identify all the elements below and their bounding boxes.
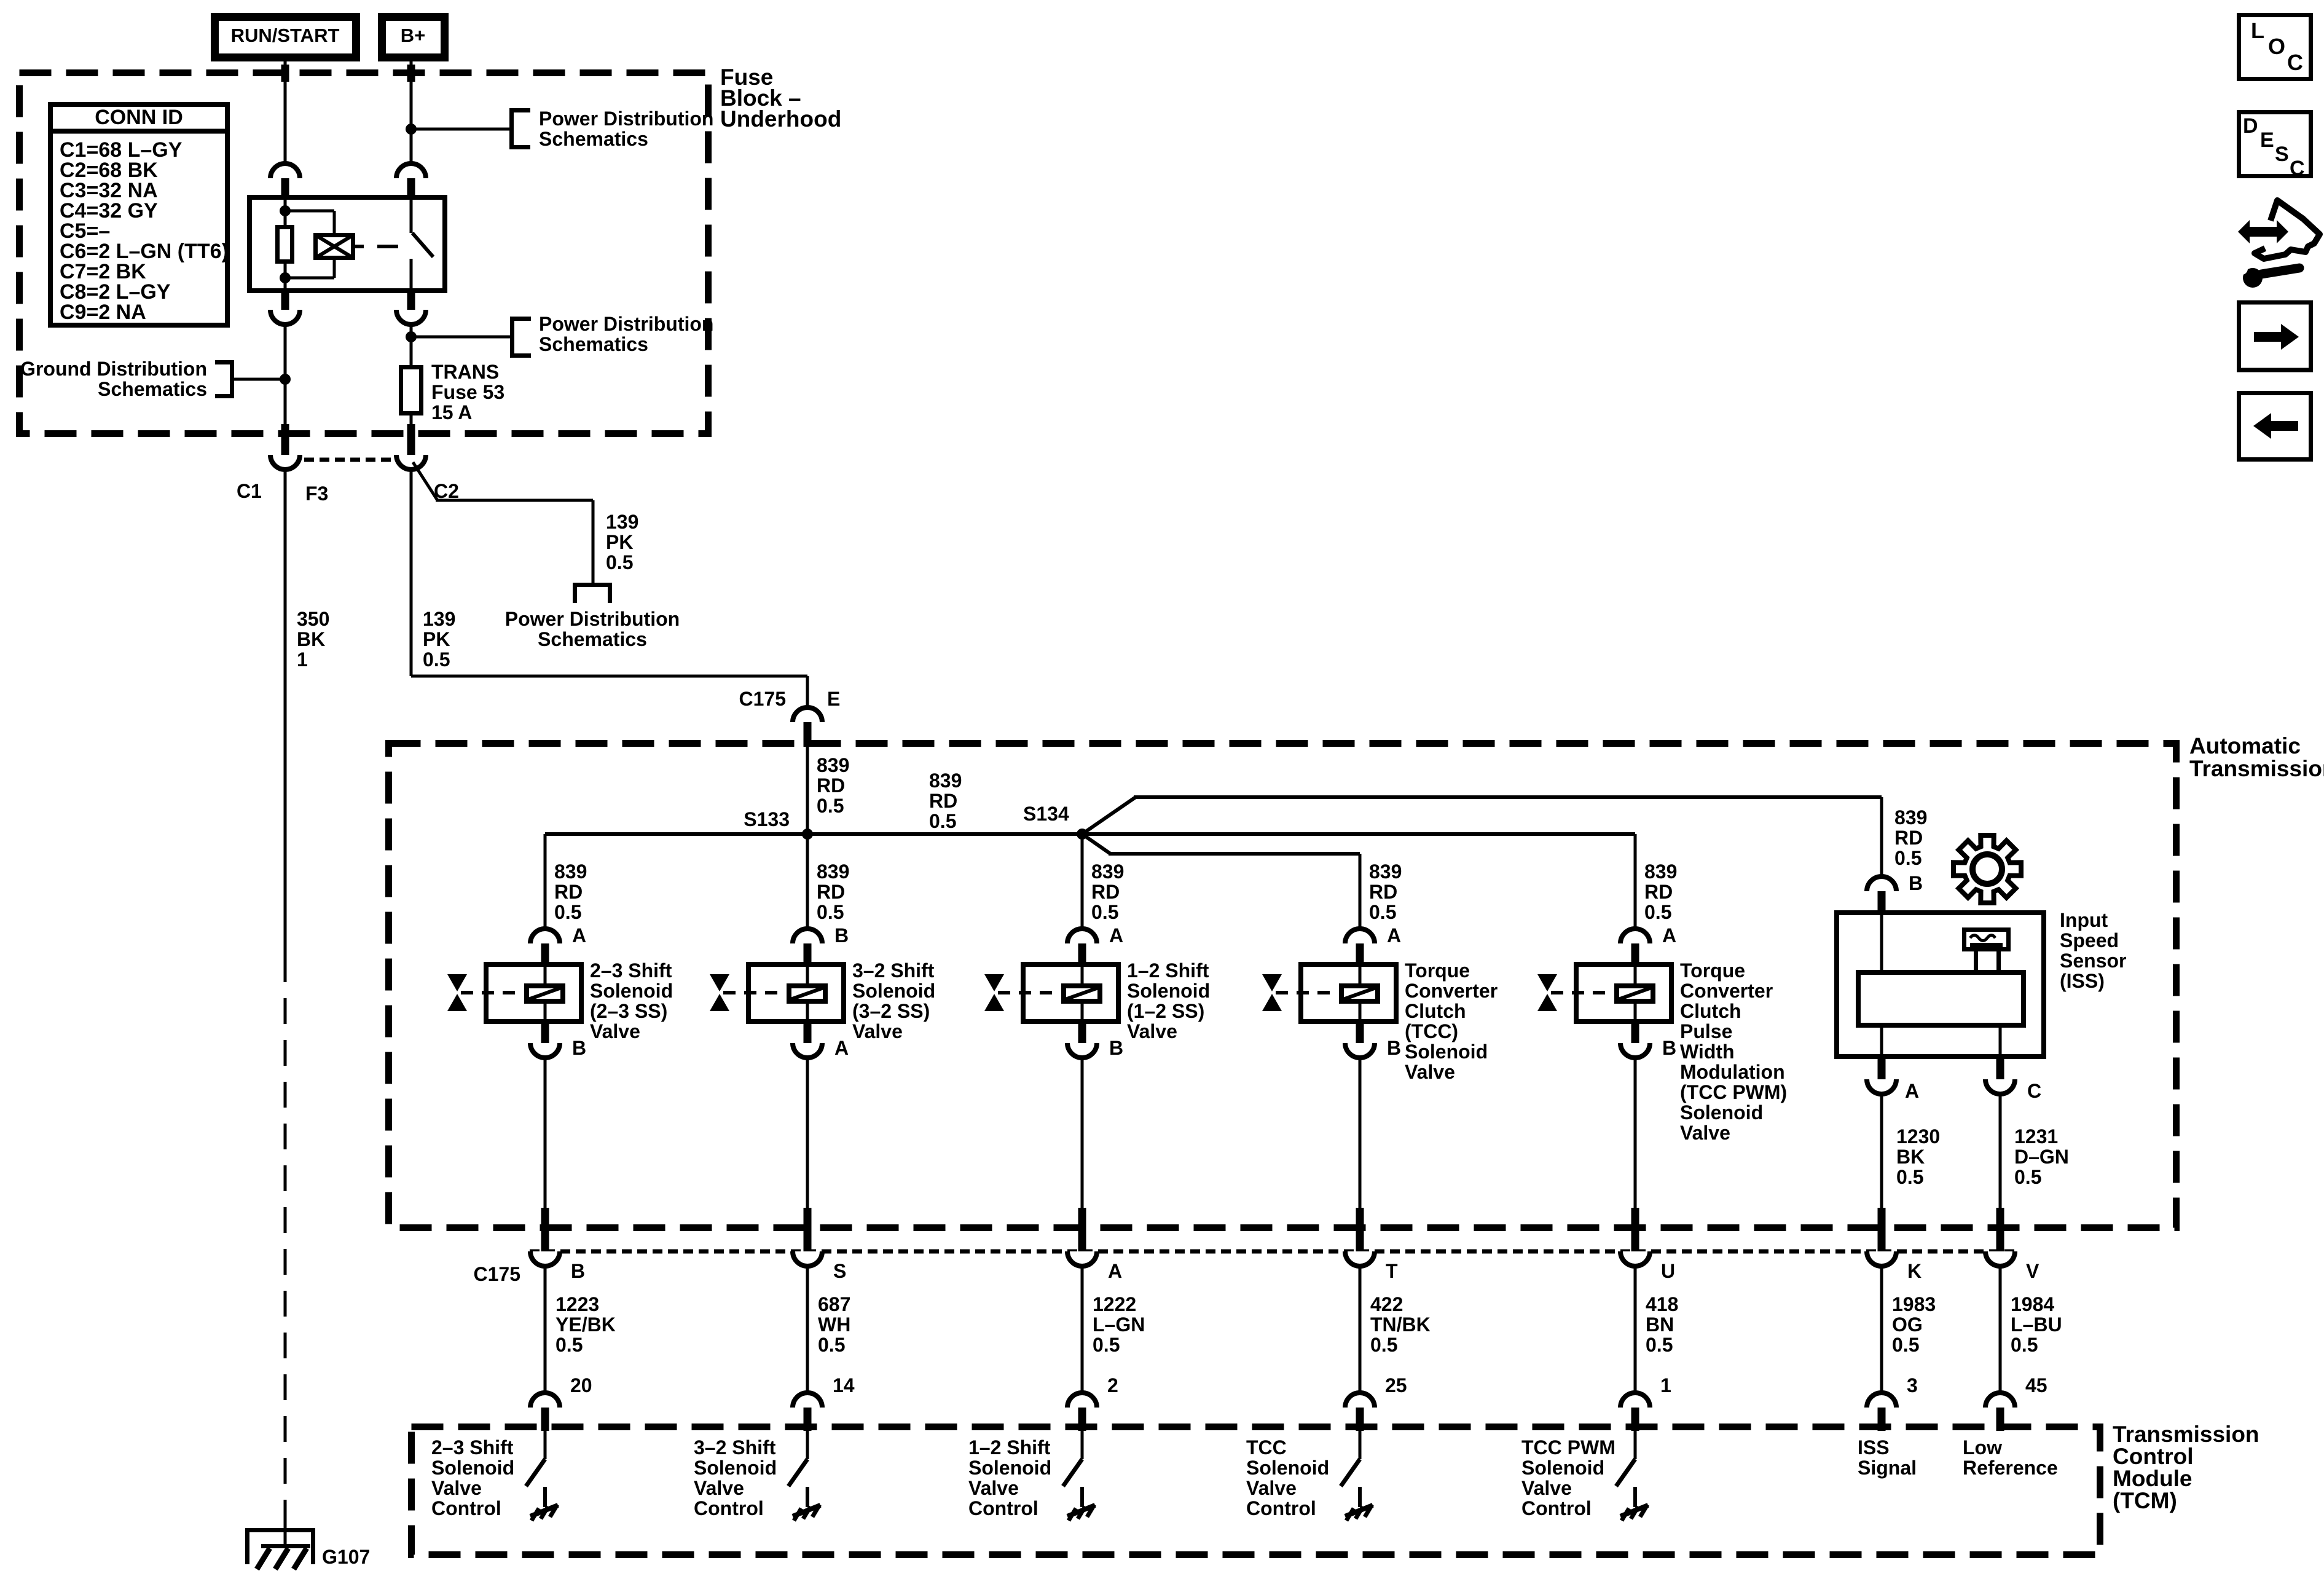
svg-text:B: B (1109, 1037, 1123, 1059)
svg-text:0.5: 0.5 (1370, 1334, 1397, 1356)
svg-text:Valve: Valve (1246, 1477, 1297, 1499)
svg-text:1984: 1984 (2011, 1293, 2054, 1315)
wire 839 RD E to S133 (806, 746, 809, 834)
svg-text:TRANS: TRANS (431, 361, 499, 383)
svg-text:1983: 1983 (1892, 1293, 1936, 1315)
svg-text:Underhood: Underhood (720, 106, 841, 132)
coil TCC PWM solenoid (1617, 986, 1653, 1001)
svg-text:Transmission: Transmission (2113, 1422, 2259, 1447)
svg-text:Control: Control (1521, 1497, 1592, 1519)
wire low reference to TCM (1999, 1265, 2002, 1394)
connector arc C1 (270, 455, 300, 470)
switch TCM driver at x=2661 (1634, 1431, 1637, 1459)
node S133 (802, 829, 813, 840)
connector C175 pin U (TCC PWM) (1631, 1208, 1639, 1253)
switch TCM driver at x=887 (544, 1431, 547, 1459)
svg-text:350: 350 (297, 608, 329, 630)
svg-text:1–2 Shift: 1–2 Shift (968, 1436, 1051, 1459)
wire coil feed TCC PWM solenoid (1634, 964, 1637, 986)
svg-text:839: 839 (554, 860, 587, 883)
svg-text:0.5: 0.5 (817, 795, 844, 817)
svg-text:ISS: ISS (1858, 1436, 1890, 1459)
solenoid TCC PWM solenoid box (1576, 964, 1671, 1022)
svg-text:2–3 Shift: 2–3 Shift (590, 959, 672, 982)
connector arc relay pin RUN/START (270, 163, 300, 178)
node ground distribution tap (280, 374, 291, 385)
icon box arrow left (2239, 393, 2311, 460)
svg-text:C: C (2290, 157, 2305, 180)
svg-text:139: 139 (423, 608, 455, 630)
svg-text:WH: WH (818, 1313, 850, 1336)
svg-text:Solenoid: Solenoid (852, 980, 935, 1002)
power feed box B+ (382, 17, 445, 58)
node relay coil top (280, 205, 291, 216)
svg-text:Fuse 53: Fuse 53 (431, 381, 504, 403)
connector arc pin B 1-2 shift solenoid (1078, 1023, 1086, 1043)
wire 139 PK to power distribution (436, 499, 593, 502)
svg-text:K: K (1907, 1260, 1922, 1282)
svg-text:0.5: 0.5 (1892, 1334, 1919, 1356)
wire 1-2 shift to TCM (1081, 1265, 1084, 1394)
valve symbol 3-2 shift solenoid (710, 974, 729, 991)
svg-text:45: 45 (2025, 1374, 2047, 1396)
valve symbol 1-2 shift solenoid (984, 974, 1004, 991)
connector arc pin B 2-3 shift solenoid (541, 1023, 549, 1043)
connector arc TCM pin 25 (1345, 1393, 1375, 1408)
svg-text:0.5: 0.5 (817, 901, 844, 923)
wire C2 lead diagonal (413, 462, 438, 500)
ISS pickup neck (1974, 951, 1978, 972)
wire 1-2 shift solenoid to C175 (1081, 1057, 1084, 1209)
switch TCM driver at x=1314 (806, 1431, 809, 1459)
valve symbol TCC solenoid (1262, 974, 1282, 991)
svg-text:839: 839 (1369, 860, 1402, 883)
bus 839 RD S133 to TCC PWM drop (545, 832, 1635, 836)
svg-text:1231: 1231 (2014, 1125, 2058, 1148)
wire TCC PWM solenoid to C175 (1634, 1057, 1637, 1209)
svg-text:TN/BK: TN/BK (1370, 1313, 1431, 1336)
svg-text:RD: RD (817, 774, 845, 797)
svg-text:839: 839 (1894, 806, 1927, 829)
input speed sensor ISS box (1837, 913, 2044, 1057)
connector arc C2 (396, 455, 426, 470)
svg-text:839: 839 (1644, 860, 1677, 883)
svg-text:Solenoid: Solenoid (968, 1457, 1051, 1479)
wire 139 PK main (410, 468, 413, 676)
svg-text:839: 839 (1091, 860, 1124, 883)
svg-text:Solenoid: Solenoid (694, 1457, 777, 1479)
automatic transmission dashed box (389, 744, 2177, 1228)
callout bracket ground distribution (230, 360, 234, 398)
wire TCC to TCM (1359, 1265, 1362, 1394)
svg-text:Solenoid: Solenoid (1246, 1457, 1329, 1479)
relay coil branch wires (284, 195, 287, 293)
svg-text:E: E (827, 688, 840, 710)
wire tap to ground distribution callout (234, 378, 285, 381)
svg-text:L–GN: L–GN (1093, 1313, 1145, 1336)
wire RUN/START to relay (284, 61, 287, 163)
svg-text:Valve: Valve (968, 1477, 1019, 1499)
svg-text:C: C (2027, 1080, 2041, 1102)
connector arc pin C ISS (1996, 1059, 2004, 1081)
svg-text:C9=2 NA: C9=2 NA (60, 301, 146, 324)
wire coil to switch dashed link (355, 245, 364, 248)
svg-text:Control: Control (968, 1497, 1038, 1519)
svg-text:Low: Low (1963, 1436, 2002, 1459)
svg-text:Schematics: Schematics (98, 378, 207, 400)
svg-text:0.5: 0.5 (1894, 847, 1922, 869)
wire S134 branch up to ISS (1082, 797, 1136, 834)
svg-text:0.5: 0.5 (423, 648, 450, 671)
svg-text:Width: Width (1680, 1041, 1735, 1063)
svg-text:Control: Control (431, 1497, 501, 1519)
svg-text:(3–2 SS): (3–2 SS) (852, 1000, 930, 1022)
svg-text:839: 839 (929, 770, 962, 792)
wire ISS B internal (1880, 913, 1883, 972)
svg-text:A: A (1905, 1080, 1919, 1102)
svg-text:0.5: 0.5 (1369, 901, 1396, 923)
svg-text:1230: 1230 (1896, 1125, 1940, 1148)
callout bracket power distribution 2 (510, 317, 514, 358)
svg-text:Torque: Torque (1680, 959, 1745, 982)
ISS pickup element box (1965, 930, 2009, 950)
node B+ tap (406, 124, 417, 135)
svg-text:Valve: Valve (590, 1020, 640, 1042)
wire TCC solenoid to C175 (1359, 1057, 1362, 1209)
solenoid 1-2 shift solenoid box (1023, 964, 1118, 1022)
connector arc pin A ISS (1878, 1059, 1886, 1081)
svg-text:OG: OG (1892, 1313, 1923, 1336)
svg-text:B: B (1909, 872, 1923, 894)
svg-text:RD: RD (1369, 881, 1397, 903)
valve symbol TCC PWM solenoid (1537, 974, 1557, 991)
svg-text:S: S (833, 1260, 846, 1282)
gear icon input speed sensor (1953, 835, 2021, 903)
ground TCM at x=2213 (1358, 1487, 1362, 1507)
node fuse tap (406, 331, 417, 342)
node S134 (1077, 829, 1088, 840)
svg-text:(2–3 SS): (2–3 SS) (590, 1000, 667, 1022)
callout bracket power distribution 3 (573, 583, 612, 587)
svg-text:Power Distribution: Power Distribution (505, 608, 680, 630)
wire ISS A to C175 (1880, 1093, 1883, 1209)
connector arc pin B TCC solenoid (1356, 1023, 1364, 1043)
connector arc relay out RUN/START side (281, 293, 289, 310)
switch TCM driver at x=1761 (1081, 1431, 1084, 1459)
svg-text:T: T (1386, 1260, 1398, 1282)
svg-text:PK: PK (423, 628, 450, 650)
svg-text:Valve: Valve (694, 1477, 744, 1499)
svg-text:A: A (572, 924, 586, 947)
svg-text:RD: RD (929, 790, 957, 812)
svg-text:C175: C175 (474, 1263, 521, 1285)
svg-text:0.5: 0.5 (1646, 1334, 1673, 1356)
svg-text:CONN ID: CONN ID (95, 106, 183, 129)
svg-text:Pulse: Pulse (1680, 1020, 1732, 1042)
CONN ID table (50, 104, 227, 325)
wire stub C1 (281, 424, 289, 457)
coil 1-2 shift solenoid (1064, 986, 1100, 1001)
svg-text:L: L (2251, 18, 2264, 43)
svg-text:Control: Control (2113, 1444, 2194, 1469)
icon box LOC (2239, 15, 2311, 79)
svg-text:3–2 Shift: 3–2 Shift (852, 959, 935, 982)
svg-text:B: B (1387, 1037, 1401, 1059)
svg-text:2: 2 (1107, 1374, 1118, 1396)
wire coil feed 2-3 shift solenoid (544, 964, 547, 986)
icon box arrow right (2239, 302, 2311, 370)
wire drop 3-2 shift (806, 834, 809, 930)
svg-text:0.5: 0.5 (2014, 1166, 2041, 1188)
coil 3-2 shift solenoid (789, 986, 825, 1001)
wire tap to power distribution callout 2 (411, 336, 510, 339)
connector C175 pin S (3-2 shift) (804, 1208, 812, 1253)
svg-text:RD: RD (554, 881, 583, 903)
svg-text:839: 839 (817, 754, 849, 776)
connector arc pin A 3-2 shift solenoid (804, 1023, 812, 1043)
svg-text:Power Distribution: Power Distribution (539, 313, 713, 335)
svg-text:839: 839 (817, 860, 849, 883)
svg-text:RUN/START: RUN/START (231, 25, 340, 46)
svg-text:Sensor: Sensor (2060, 950, 2126, 972)
connector arc relay pin B+ (396, 163, 426, 178)
svg-text:TCC: TCC (1246, 1436, 1287, 1459)
svg-text:BN: BN (1646, 1313, 1674, 1336)
wire 3-2 shift to TCM (806, 1265, 809, 1394)
solenoid 2-3 shift solenoid box (486, 964, 581, 1022)
fuse block - underhood dashed box (20, 73, 709, 434)
coil TCC solenoid (1341, 986, 1378, 1001)
wire 2-3 shift solenoid to C175 (544, 1057, 547, 1209)
svg-text:Converter: Converter (1405, 980, 1498, 1002)
connector arc relay out B+ side (407, 293, 415, 310)
svg-text:Power Distribution: Power Distribution (539, 108, 713, 130)
node relay coil bottom (280, 272, 291, 283)
svg-text:S: S (2275, 143, 2289, 166)
ground TCM at x=2661 (1633, 1487, 1637, 1507)
svg-text:(1–2 SS): (1–2 SS) (1127, 1000, 1204, 1022)
svg-text:B+: B+ (401, 25, 426, 46)
ground TCM at x=887 (543, 1487, 547, 1507)
wire 3-2 shift solenoid to C175 (806, 1057, 809, 1209)
svg-text:Control: Control (1246, 1497, 1316, 1519)
ground TCM at x=1314 (806, 1487, 809, 1507)
wire drop 2-3 shift (544, 834, 547, 930)
svg-text:1–2 Shift: 1–2 Shift (1127, 959, 1209, 982)
svg-text:Valve: Valve (1127, 1020, 1177, 1042)
svg-text:E: E (2260, 128, 2274, 152)
svg-text:A: A (1108, 1260, 1122, 1282)
wire ISS signal to TCM (1880, 1265, 1883, 1394)
connector arc pin B TCC PWM solenoid (1631, 1023, 1639, 1043)
wire fuse to C2 (410, 415, 413, 425)
svg-text:V: V (2026, 1260, 2039, 1282)
svg-text:A: A (834, 1037, 849, 1059)
svg-text:TCC PWM: TCC PWM (1521, 1436, 1615, 1459)
resistor relay internal (278, 227, 292, 262)
svg-text:A: A (1387, 924, 1401, 947)
svg-text:RD: RD (1894, 827, 1923, 849)
svg-text:Signal: Signal (1858, 1457, 1917, 1479)
svg-text:Automatic: Automatic (2189, 733, 2301, 758)
svg-text:0.5: 0.5 (1093, 1334, 1120, 1356)
svg-text:Clutch: Clutch (1680, 1000, 1741, 1022)
callout bracket power distribution 1 (509, 108, 514, 149)
svg-text:Modulation: Modulation (1680, 1061, 1785, 1083)
wire B+ tap to power distribution callout (411, 128, 509, 131)
svg-text:Control: Control (694, 1497, 764, 1519)
svg-text:Module: Module (2113, 1466, 2192, 1491)
wire relay to fuse (410, 323, 413, 367)
wire coil feed TCC solenoid (1359, 964, 1362, 986)
svg-text:Schematics: Schematics (538, 628, 647, 650)
svg-text:Solenoid: Solenoid (1127, 980, 1210, 1002)
svg-text:0.5: 0.5 (554, 901, 581, 923)
svg-text:14: 14 (833, 1374, 855, 1396)
svg-text:RD: RD (1644, 881, 1673, 903)
svg-text:(TCC PWM): (TCC PWM) (1680, 1081, 1787, 1103)
connector C175 pin K (ISS signal) (1878, 1208, 1886, 1253)
connector arc TCM pin 14 (793, 1393, 822, 1408)
solenoid TCC solenoid box (1301, 964, 1396, 1022)
power feed box RUN/START (215, 17, 356, 58)
svg-text:0.5: 0.5 (1091, 901, 1118, 923)
svg-text:25: 25 (1385, 1374, 1407, 1396)
valve symbol 2-3 shift solenoid (447, 974, 467, 991)
svg-text:Schematics: Schematics (539, 333, 648, 355)
ground G107 symbol (245, 1528, 315, 1532)
svg-text:Solenoid: Solenoid (431, 1457, 514, 1479)
connector C175 pin A (1-2 shift) (1078, 1208, 1086, 1253)
svg-text:0.5: 0.5 (606, 551, 633, 573)
wire drop TCC PWM (1634, 834, 1637, 930)
svg-text:1: 1 (297, 648, 308, 671)
wire TCC PWM to TCM (1634, 1265, 1637, 1394)
connector arc TCM pin 1 (1620, 1393, 1650, 1408)
coil 2-3 shift solenoid (527, 986, 563, 1001)
connector C175 pin V (low reference) (1996, 1208, 2004, 1253)
wire B+ to relay (410, 61, 413, 163)
svg-text:RD: RD (817, 881, 845, 903)
svg-text:Clutch: Clutch (1405, 1000, 1466, 1022)
svg-text:Valve: Valve (431, 1477, 482, 1499)
connector arc pin A 1-2 shift solenoid (1067, 929, 1097, 943)
svg-text:D: D (2243, 114, 2258, 138)
svg-text:RD: RD (1091, 881, 1120, 903)
connector arc pin A TCC PWM solenoid (1620, 929, 1650, 943)
connector arc TCM pin 2 (1067, 1393, 1097, 1408)
svg-text:Valve: Valve (852, 1020, 903, 1042)
svg-text:0.5: 0.5 (1644, 901, 1671, 923)
connector arc TCM pin 45 (1985, 1393, 2015, 1408)
switch TCM driver at x=2213 (1359, 1431, 1362, 1459)
svg-text:(TCC): (TCC) (1405, 1020, 1458, 1042)
svg-text:1223: 1223 (555, 1293, 599, 1315)
connector C175 pin B (2-3 shift) (541, 1208, 549, 1253)
wire stub C2 (407, 424, 415, 457)
svg-text:0.5: 0.5 (555, 1334, 583, 1356)
svg-text:(ISS): (ISS) (2060, 970, 2105, 992)
wire 350 BK solid segment (284, 468, 287, 956)
svg-text:BK: BK (1896, 1146, 1925, 1168)
svg-text:139: 139 (606, 511, 638, 533)
connector arc pin B 3-2 shift solenoid (793, 929, 822, 943)
svg-text:Schematics: Schematics (539, 128, 648, 150)
svg-text:418: 418 (1646, 1293, 1678, 1315)
svg-text:687: 687 (818, 1293, 850, 1315)
dotted line F3 harness (289, 458, 407, 462)
dotted line C175 harness (530, 1250, 2019, 1254)
svg-text:15 A: 15 A (431, 401, 472, 423)
svg-text:C1: C1 (237, 480, 262, 502)
svg-text:3: 3 (1907, 1374, 1918, 1396)
solenoid 3-2 shift solenoid box (748, 964, 844, 1022)
connector arc TCM pin 20 (530, 1393, 560, 1408)
svg-text:B: B (1662, 1037, 1676, 1059)
svg-text:Ground Distribution: Ground Distribution (20, 358, 207, 380)
connector arc pin B ISS (1867, 876, 1896, 891)
svg-text:D–GN: D–GN (2014, 1146, 2069, 1168)
svg-text:Solenoid: Solenoid (1680, 1101, 1763, 1124)
svg-text:U: U (1661, 1260, 1675, 1282)
coil relay crossed-box (316, 235, 353, 258)
svg-text:F3: F3 (305, 482, 328, 505)
svg-text:PK: PK (606, 531, 633, 553)
svg-text:C175: C175 (739, 688, 787, 710)
svg-text:1: 1 (1660, 1374, 1671, 1396)
svg-text:B: B (572, 1037, 586, 1059)
svg-text:Converter: Converter (1680, 980, 1773, 1002)
connector arc pin A 2-3 shift solenoid (530, 929, 560, 943)
svg-text:B: B (834, 924, 849, 947)
svg-text:Solenoid: Solenoid (1521, 1457, 1604, 1479)
wire S134 branch down to TCC (1082, 834, 1110, 854)
svg-text:Input: Input (2060, 909, 2108, 931)
TCM dashed box (412, 1427, 2100, 1555)
svg-text:Valve: Valve (1521, 1477, 1572, 1499)
svg-text:A: A (1109, 924, 1123, 947)
ISS core rectangle (1858, 972, 2024, 1025)
wire 2-3 shift to TCM (544, 1265, 547, 1394)
wire ISS C internal (1999, 1025, 2002, 1059)
svg-text:Reference: Reference (1963, 1457, 2058, 1479)
icon box DESC (2239, 112, 2311, 176)
fuse F53 TRANS Fuse 53 15A (401, 368, 422, 414)
svg-text:Solenoid: Solenoid (1405, 1041, 1488, 1063)
svg-text:G107: G107 (322, 1546, 370, 1568)
svg-text:0.5: 0.5 (929, 810, 956, 832)
svg-text:20: 20 (570, 1374, 592, 1396)
connector arc pin A TCC solenoid (1345, 929, 1375, 943)
connector C175 pin T (TCC) (1356, 1208, 1364, 1253)
ground TCM at x=1761 (1080, 1487, 1084, 1507)
svg-text:C: C (2287, 50, 2303, 75)
connector C175 pin E (793, 707, 822, 722)
svg-text:2–3 Shift: 2–3 Shift (431, 1436, 514, 1459)
svg-text:YE/BK: YE/BK (555, 1313, 616, 1336)
svg-text:0.5: 0.5 (818, 1334, 845, 1356)
svg-text:S133: S133 (744, 808, 790, 830)
svg-text:BK: BK (297, 628, 325, 650)
svg-text:3–2 Shift: 3–2 Shift (694, 1436, 776, 1459)
svg-text:O: O (2268, 34, 2285, 59)
wire coil feed 3-2 shift solenoid (806, 964, 809, 986)
svg-text:0.5: 0.5 (2011, 1334, 2038, 1356)
svg-text:(TCM): (TCM) (2113, 1488, 2177, 1513)
relay U1 IGN1 Relay 64 box (249, 197, 445, 291)
svg-text:1222: 1222 (1093, 1293, 1136, 1315)
svg-text:Valve: Valve (1680, 1122, 1730, 1144)
